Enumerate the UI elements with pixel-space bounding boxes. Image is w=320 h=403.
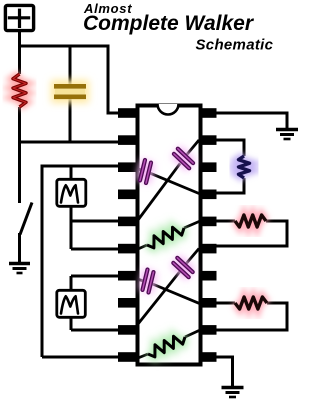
svg-text:Complete Walker: Complete Walker bbox=[83, 12, 255, 35]
svg-text:Schematic: Schematic bbox=[196, 36, 274, 53]
